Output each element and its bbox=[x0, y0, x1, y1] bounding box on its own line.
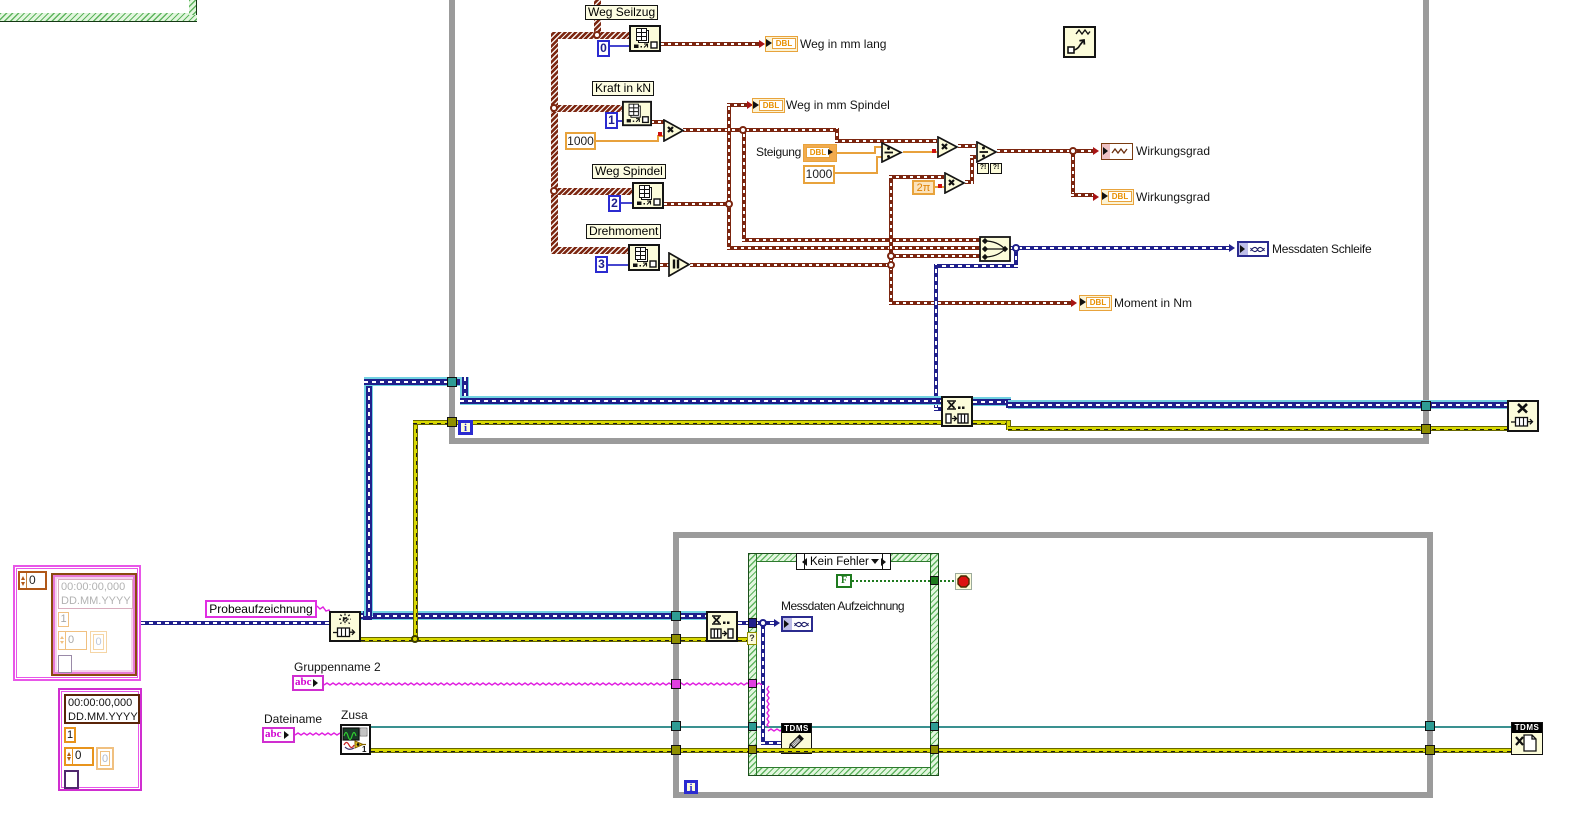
wire: Steigung control to divide1 upper input bbox=[836, 152, 876, 154]
tunnel: error2 out case right bbox=[930, 745, 939, 754]
free label Kraft in kN bbox=[592, 81, 654, 96]
wire: multiply branch vertical x744 bbox=[742, 128, 746, 242]
wire: I32 0 to Weg Seilzug index bbox=[609, 45, 629, 47]
I32 constant 3 bbox=[595, 256, 608, 273]
wire: error out of Obtain Queue east to Dequeue bbox=[361, 637, 707, 642]
loop1 iteration terminal i bbox=[458, 420, 473, 435]
while loop 2 (logging loop) bbox=[673, 532, 1433, 538]
tunnel: tdms into case left bbox=[748, 722, 757, 731]
index array node U3 (Weg Spindel) bbox=[632, 182, 664, 209]
junction ring multiply-out / branch down bbox=[739, 126, 747, 134]
loop2 iteration terminal i bbox=[684, 780, 698, 794]
wire: queue out of Enqueue bbox=[973, 397, 1011, 406]
wire: Drehmoment output to bars-triangle bbox=[660, 263, 670, 267]
dynamic indicator Messdaten Schleife bbox=[1237, 241, 1269, 257]
tunnel: boolean out case right bbox=[930, 576, 939, 585]
wire: merge-signals output to Messdaten Schleife indicator bbox=[1010, 246, 1230, 250]
wire: dynamic row y266 west bbox=[934, 264, 1018, 268]
I32 constant 1 bbox=[605, 112, 618, 129]
case structure fragment top-left (cropped) bbox=[0, 13, 197, 22]
Steigung DBL control bbox=[803, 144, 837, 162]
wire: dynamic vertical x936 down to enqueue bbox=[934, 264, 938, 409]
DBL indicator Moment in Nm bbox=[1079, 295, 1112, 311]
DBL constant 1000 (Kraft) bbox=[565, 132, 596, 150]
label Wirkungsgrad 1 bbox=[1136, 144, 1210, 159]
wire: Weg Spindel to indicator row y105 bbox=[727, 103, 748, 107]
DBL indicator Weg in mm Spindel bbox=[752, 98, 785, 113]
Zusa express VI node bbox=[340, 724, 371, 755]
wire: error vertical x415 up bbox=[413, 420, 418, 641]
wire: dynamic vertical x764 down to TDMS Write bbox=[761, 621, 765, 745]
wire: multiply-2pi output bbox=[965, 180, 974, 184]
free label Weg Spindel bbox=[592, 164, 666, 179]
index array node U4 (Drehmoment) bbox=[628, 244, 660, 271]
wire: queue vertical x368 up bbox=[364, 378, 373, 616]
free label Weg Seilzug bbox=[585, 5, 658, 20]
label Messdaten Schleife bbox=[1272, 242, 1371, 257]
label Moment in Nm bbox=[1114, 296, 1192, 311]
loop stop (conditional) terminal bbox=[955, 573, 972, 590]
multiply node 2pi bbox=[944, 172, 966, 194]
wire: queue step down x464 bbox=[460, 377, 469, 405]
DBL indicator Weg in mm lang bbox=[765, 36, 798, 52]
wire: array row to Weg Spindel index node bbox=[551, 188, 632, 195]
tunnel: string into loop2 left bbox=[671, 679, 681, 689]
wire: array row to Weg Seilzug index node bbox=[551, 32, 629, 39]
wire: row y256 to merge input 3 bbox=[889, 254, 981, 258]
junction ring bus/Kraft row bbox=[550, 104, 558, 112]
junction ring x891/y256 bbox=[887, 252, 895, 260]
F boolean constant bbox=[836, 574, 852, 588]
wire: teal continues after TDMS Write bbox=[810, 726, 1512, 728]
junction ring on Weg Seilzug row bbox=[593, 31, 601, 39]
cluster constant (timestamp, bottom) bbox=[58, 688, 142, 791]
index array node U1 (Weg Seilzug) bbox=[629, 25, 661, 52]
tunnel: queue into loop2 left bbox=[671, 611, 681, 621]
label Zusa bbox=[341, 708, 368, 723]
tunnel: dynamic into case left bbox=[748, 618, 757, 628]
string control Gruppenname 2 (abc) bbox=[292, 675, 324, 691]
wire: vertical x972 up to divide3 lower input bbox=[970, 155, 974, 184]
merge signals node bbox=[979, 236, 1011, 262]
wire: multiply2 output to divide3 bbox=[958, 144, 976, 148]
wire: divide1 output to multiply2 lower input bbox=[903, 151, 937, 153]
tunnel: queue out loop1 right bbox=[1421, 401, 1431, 411]
tunnel: tdms out case right bbox=[930, 722, 939, 731]
DBL constant 1000 (Steigung) bbox=[803, 165, 835, 184]
wire: error out of Enqueue bbox=[973, 420, 1011, 425]
case selector label "Kein Fehler" bbox=[796, 553, 891, 570]
wire: cluster to Obtain Queue (dynamic) bbox=[141, 621, 329, 625]
coercion dot multiply-2pi bbox=[938, 184, 942, 188]
wire: waveform-array bus vertical bbox=[551, 32, 558, 253]
array-of-cluster control (grayed, top) bbox=[13, 565, 141, 681]
tunnel: tdms out loop2 right bbox=[1425, 721, 1435, 731]
I32 constant 0 bbox=[597, 40, 610, 57]
wire: divide3 output to Wirkungsgrad bbox=[997, 149, 1094, 153]
wire: error stub Dequeue to ? tunnel bbox=[738, 637, 749, 642]
free label Drehmoment bbox=[586, 224, 661, 239]
wire: I32 1 to Kraft index bbox=[617, 120, 625, 122]
TDMS write node bbox=[781, 723, 812, 754]
tunnel: error into loop1 left bbox=[447, 417, 457, 427]
wire: queue row y406 to Release Queue bbox=[1008, 400, 1508, 409]
label Messdaten Aufzeichnung bbox=[781, 599, 904, 614]
wire: step down at x837 bbox=[835, 128, 839, 143]
wire: row y240 to merge input 1 bbox=[742, 238, 981, 242]
wire: error row y422 into loop1 to Enqueue bbox=[413, 420, 942, 425]
?! ?! boxes under divide3 bbox=[977, 163, 989, 174]
I32 constant 2 bbox=[608, 195, 621, 212]
wire: 1000 (2) to divide1 lower input bbox=[834, 172, 878, 174]
wire: queue row y382 into loop bbox=[364, 377, 469, 386]
Probeaufzeichnung string constant label bbox=[205, 600, 317, 618]
tunnel: error2 out loop2 right bbox=[1425, 745, 1435, 755]
wire: I32 2 to Weg Spindel index bbox=[620, 202, 632, 204]
wire: Dateiname string zigzag bbox=[293, 730, 343, 738]
wire: error row y429 to Release Queue bbox=[1008, 426, 1508, 431]
wire: Zusa TDMS refnum teal east bbox=[371, 726, 782, 728]
while loop 1 (acquisition loop, cropped at top) bbox=[449, 0, 455, 444]
wire: row y303 to Moment indicator bbox=[889, 301, 1072, 305]
tunnel: error2 into loop2 left bbox=[671, 745, 681, 755]
wire: queue step down x1009 bbox=[1006, 399, 1011, 408]
tunnel: error ? on case left bbox=[747, 632, 757, 645]
label Steigung bbox=[756, 145, 801, 160]
coercion dot multiply2 bbox=[932, 149, 936, 153]
wire: row y197 to Wirkungsgrad DBL bbox=[1071, 193, 1094, 197]
junction ring error branch bbox=[411, 635, 419, 643]
divide node 3 (Wirkungsgrad) bbox=[976, 141, 998, 163]
coercion dot multiply1 bbox=[658, 132, 662, 136]
waveform indicator Wirkungsgrad bbox=[1101, 143, 1133, 160]
multiply node 2 bbox=[937, 136, 959, 158]
junction ring Weg Spindel output bbox=[725, 200, 733, 208]
tunnel: error into loop2 left bbox=[671, 634, 681, 644]
wire: Kraft waveform to multiply bbox=[651, 120, 664, 124]
svg-text:1: 1 bbox=[362, 745, 367, 753]
wire: row y141 to multiply2 bbox=[835, 139, 937, 143]
tunnel: error out loop1 right bbox=[1421, 424, 1431, 434]
release queue node bbox=[1507, 400, 1539, 432]
junction ring dynamic in case bbox=[759, 619, 767, 627]
junction ring x891/y265 bbox=[887, 261, 895, 269]
dynamic indicator Messdaten Aufzeichnung bbox=[781, 616, 813, 632]
label Dateiname bbox=[264, 712, 322, 727]
wire: array row to Drehmoment index node bbox=[551, 247, 628, 254]
wire: queue out of Obtain Queue east to Dequeue bbox=[361, 611, 707, 620]
wire: Zusa error out east to TDMS Write/Close bbox=[371, 748, 1512, 753]
wire: Weg Seilzug waveform to indicator bbox=[661, 42, 760, 46]
tunnel: queue into loop1 left bbox=[447, 377, 457, 387]
wire: I32 3 to Drehmoment index bbox=[607, 264, 628, 266]
wire: error overlay across TDMS write bottom bbox=[780, 748, 813, 753]
wire: Weg Spindel vertical branch x729 bbox=[727, 103, 731, 250]
junction ring bus/Weg Spindel row bbox=[550, 187, 558, 195]
enqueue element node bbox=[941, 396, 973, 427]
junction ring dynamic branch bbox=[1012, 244, 1020, 252]
wire: bars-triangle output east bbox=[690, 263, 893, 267]
waveform chart icon (unwired) bbox=[1063, 26, 1096, 58]
case structure "Kein Fehler" bbox=[748, 553, 939, 776]
wire: waveform-array feed from top (node A) bbox=[594, 0, 601, 35]
wire: queue row y401 to Enqueue bbox=[460, 396, 942, 405]
DBL constant 2pi bbox=[912, 180, 935, 195]
wire: error step down x1009 bbox=[1006, 421, 1011, 430]
wire: multiply output east bbox=[683, 128, 839, 132]
wire: vertical x1073 to second Wirkungsgrad bbox=[1071, 149, 1075, 195]
wire: row y248 to merge input 2 bbox=[727, 246, 981, 250]
tunnel: string into case left bbox=[748, 679, 757, 688]
tunnel: tdms refnum into loop2 left bbox=[671, 721, 681, 731]
wire: into divide3 lower input bbox=[970, 155, 976, 159]
multiply node (Kraft x 1000) bbox=[663, 119, 685, 142]
dequeue element node bbox=[706, 611, 738, 642]
index array node U2 (Kraft) bbox=[622, 100, 652, 127]
wire: 2pi constant to multiply-2pi bbox=[934, 186, 944, 188]
string control Dateiname (abc) bbox=[262, 727, 295, 743]
wire: dynamic into enqueue element input bbox=[934, 407, 942, 411]
wire: dynamic branch down x1016 bbox=[1014, 246, 1018, 268]
divide node 1 (Steigung/1000) bbox=[881, 142, 903, 163]
wire: dynamic row y744 into TDMS Write bbox=[761, 741, 781, 745]
label Weg in mm Spindel bbox=[786, 98, 890, 113]
wire: F constant to loop stop terminal (green dotted) bbox=[852, 580, 956, 582]
junction square queue branch bbox=[363, 611, 372, 620]
wire: Probeaufzeichnung string zigzag bbox=[315, 604, 333, 618]
bars triangle node (Drehmoment) bbox=[668, 252, 691, 277]
wire: 1000 constant to multiply1 lower input bbox=[595, 140, 659, 142]
wire: Weg Spindel output to branch bbox=[664, 202, 729, 206]
label Weg in mm lang bbox=[800, 37, 886, 52]
TDMS close node bbox=[1511, 722, 1543, 755]
obtain queue node bbox=[329, 611, 361, 642]
wire: Drehmoment vertical x891 bbox=[889, 175, 893, 305]
label Wirkungsgrad 2 bbox=[1136, 190, 1210, 205]
tunnel: error2 into case left bbox=[748, 745, 757, 754]
label Gruppenname 2 bbox=[294, 660, 381, 675]
wire: Dequeue dynamic output to indicator bbox=[738, 621, 776, 625]
DBL indicator Wirkungsgrad bbox=[1101, 189, 1134, 205]
wire: array row to Kraft index node bbox=[551, 105, 622, 112]
junction ring Wirkungsgrad branch bbox=[1069, 147, 1077, 155]
wire: row y177 to multiply 2pi bbox=[889, 175, 944, 179]
